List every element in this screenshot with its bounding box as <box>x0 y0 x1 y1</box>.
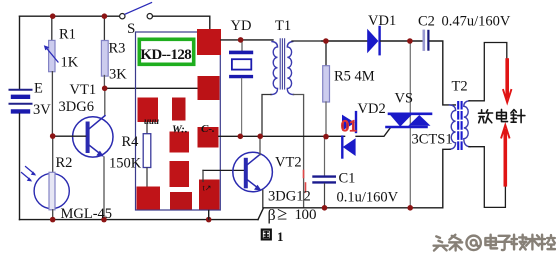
capacitor C2 <box>422 31 425 50</box>
transformer T2 <box>443 43 507 208</box>
T2 secondary winding <box>464 101 470 147</box>
R2 light arrows <box>22 167 35 181</box>
wire VT1 collector lead <box>104 88 106 116</box>
glyph tou (head) <box>434 236 448 250</box>
diac VD2 <box>342 112 356 157</box>
wire VT1 emitter lead <box>103 157 105 220</box>
glyph tiao <box>449 235 462 251</box>
KD--128 green label <box>139 39 193 64</box>
wire bottom rail left <box>20 219 259 221</box>
T1 secondary winding <box>287 42 293 95</box>
label figure 1 <box>262 230 271 240</box>
svg-text:R4: R4 <box>122 134 140 150</box>
svg-text:W:.: W:. <box>172 124 188 136</box>
svg-text:150K: 150K <box>109 156 142 172</box>
module red block F <box>198 127 219 148</box>
svg-text:uuu: uuu <box>144 116 159 126</box>
svg-text:01: 01 <box>341 118 357 135</box>
wire T2 primary bottom <box>443 149 450 208</box>
wire top rail right <box>322 40 367 42</box>
svg-text:0.47u/160V: 0.47u/160V <box>442 13 511 29</box>
wire T1 primary bottom <box>262 95 271 137</box>
wire R1 bottom lead <box>51 72 53 136</box>
wire top rail left <box>20 15 120 17</box>
red watermark text row <box>144 116 215 136</box>
sounder YD <box>231 42 252 136</box>
svg-text:C1: C1 <box>339 171 356 187</box>
node dots left <box>50 13 212 222</box>
wire R2 bottom lead <box>52 210 54 220</box>
svg-text:1K: 1K <box>61 55 79 71</box>
switch S <box>120 3 153 19</box>
battery E <box>10 90 32 112</box>
svg-text:00: 00 <box>302 207 317 223</box>
node dots middle <box>238 37 329 211</box>
R1 arrow <box>46 48 58 63</box>
glyph shu (art) <box>526 235 540 250</box>
wire battery top lead <box>19 16 21 89</box>
svg-text:R3: R3 <box>109 41 126 57</box>
svg-text:T2: T2 <box>452 79 468 95</box>
wire bottom rail right <box>258 208 443 220</box>
svg-text:0.1u/160V: 0.1u/160V <box>337 189 399 205</box>
resistor R4 <box>146 122 148 134</box>
wire battery bottom lead <box>19 114 21 220</box>
glyph dian (electric) <box>485 235 497 249</box>
wire VD1 to C2 <box>381 40 423 42</box>
svg-text:3V: 3V <box>33 102 51 118</box>
wire module bottom pin <box>208 210 210 220</box>
svg-text:KD--128: KD--128 <box>140 47 192 63</box>
module red block D <box>172 98 186 121</box>
svg-text:E: E <box>34 81 43 97</box>
discharge needle up arrow <box>501 125 509 185</box>
wire R1 top lead <box>51 16 53 40</box>
module red block A (top right) <box>197 29 221 55</box>
red watermark marks on wire <box>304 171 306 193</box>
glyph tu (figure) <box>262 230 271 240</box>
wire T1 secondary top <box>292 40 322 42</box>
wire VD2 to gate <box>356 128 390 136</box>
label discharge needle (fang dian zhen) <box>479 109 525 122</box>
module red block C (left) <box>138 98 159 123</box>
wire T2 secondary bottom <box>469 147 505 208</box>
svg-text:3K: 3K <box>109 67 127 83</box>
wire VT2 collector lead <box>259 136 261 155</box>
module red block J (bottom middle) <box>170 192 192 210</box>
svg-text:VS: VS <box>395 91 414 107</box>
svg-text:≥: ≥ <box>277 205 287 225</box>
watermark toutiao at dianzijishukong <box>434 235 556 253</box>
wire R3 bottom lead <box>103 76 105 89</box>
module red block B <box>198 76 220 100</box>
wire R3 top lead <box>103 16 105 40</box>
svg-text:3CTS1: 3CTS1 <box>412 132 453 148</box>
svg-text:C2: C2 <box>418 14 435 30</box>
glyph zi (child) <box>498 236 512 250</box>
T2 primary winding <box>450 105 456 149</box>
photoresistor R2 <box>34 172 69 210</box>
wire module pin left <box>105 87 197 89</box>
svg-text:R5 4M: R5 4M <box>334 69 375 85</box>
transistor VT1 <box>73 116 113 158</box>
svg-text:3DG6: 3DG6 <box>59 99 94 115</box>
thyristor VS (triac) <box>387 41 432 208</box>
module KD-128 box <box>136 32 221 210</box>
wire switch to module <box>153 16 210 29</box>
svg-text:β: β <box>268 207 276 224</box>
wire T2 secondary top <box>469 43 507 101</box>
module red block I (bottom left) <box>137 187 161 210</box>
svg-text:R1: R1 <box>59 27 76 43</box>
svg-text:C-.: C-. <box>201 123 215 135</box>
wire VT2 base lead <box>203 169 244 171</box>
T2 core (dashed) <box>457 102 459 152</box>
transformer T1 <box>262 39 322 208</box>
glyph at <box>466 236 480 250</box>
wire VT2 emitter lead <box>262 190 264 208</box>
wire VT1 base lead <box>53 135 86 137</box>
svg-text:R2: R2 <box>56 155 73 171</box>
svg-text:T1: T1 <box>275 18 291 34</box>
module red block H <box>199 180 220 210</box>
wire T1 secondary bottom <box>294 95 304 208</box>
transistor VT2 <box>233 152 273 192</box>
glyph dian <box>497 109 508 121</box>
wire module to T1 top <box>221 39 273 41</box>
module red block E <box>170 132 190 153</box>
resistor R5 <box>325 41 327 66</box>
wire C2 to T2 <box>430 41 456 105</box>
capacitor C1 <box>324 136 326 175</box>
node dots right <box>323 38 413 210</box>
svg-text:YD: YD <box>231 18 252 34</box>
svg-text:t↗: t↗ <box>203 184 212 193</box>
glyph fang <box>479 110 493 123</box>
svg-text:3DG12: 3DG12 <box>268 189 311 205</box>
module red block G <box>170 161 190 187</box>
wire collector net <box>219 135 345 137</box>
T1 primary winding <box>271 42 278 95</box>
svg-text:VT2: VT2 <box>275 155 302 171</box>
wire R2 top lead <box>52 136 54 172</box>
svg-text:MGL-45: MGL-45 <box>61 206 113 222</box>
resistor R1 (potentiometer) <box>49 40 55 71</box>
svg-text:VT1: VT1 <box>70 82 97 98</box>
svg-text:1: 1 <box>277 229 284 244</box>
T1 core <box>279 39 281 89</box>
svg-text:S: S <box>127 21 135 37</box>
svg-text:VD1: VD1 <box>368 13 396 29</box>
diode VD1 <box>367 29 378 53</box>
glyph ji (technique) <box>512 235 527 250</box>
svg-text:VD2: VD2 <box>358 101 386 117</box>
glyph zhen <box>511 110 525 123</box>
glyph kong (control) <box>540 235 556 250</box>
resistor R3 <box>101 41 108 77</box>
discharge needle down arrow <box>503 60 511 103</box>
